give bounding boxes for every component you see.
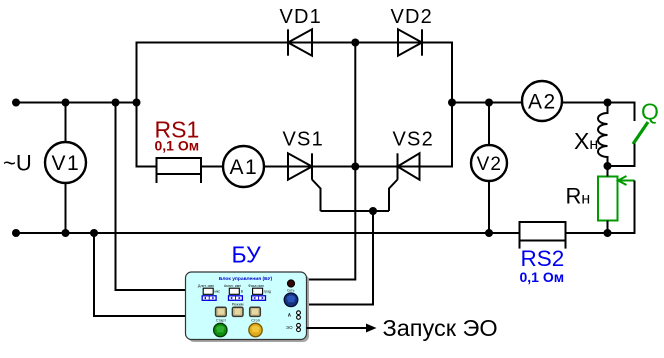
svg-text:V2: V2 (477, 154, 502, 175)
node BU tap bottom (90, 229, 98, 237)
svg-text:VD1: VD1 (280, 6, 323, 28)
BU green button (214, 323, 227, 336)
node V2 top (485, 99, 493, 107)
BU display 1 (203, 288, 220, 294)
node V1 top (62, 99, 70, 107)
wire right riser x=452 with elbow to VS2 (420, 42, 452, 167)
rheostat Rn (598, 166, 618, 233)
BU display 2 (229, 288, 243, 294)
node load top (604, 99, 612, 107)
node source bottom (12, 229, 20, 237)
svg-text:БУ: БУ (232, 242, 262, 268)
svg-text:VS1: VS1 (283, 129, 324, 151)
svg-text:Длит. имп: Длит. имп (198, 284, 214, 288)
svg-text:Запуск ЭО: Запуск ЭО (383, 315, 498, 341)
wire switch branch top (608, 103, 635, 122)
svg-text:VD2: VD2 (391, 6, 434, 28)
node gate junction (369, 207, 377, 215)
svg-text:VS2: VS2 (393, 129, 434, 151)
wire BU input 1 from top bus (116, 103, 186, 291)
node V2 bottom (485, 229, 493, 237)
wire V1 branch (65, 103, 67, 234)
BU terminal group sync (287, 311, 300, 319)
ammeter A2 (522, 81, 562, 121)
wire left riser x=136.5 with elbow to RS1 (137, 42, 158, 167)
svg-text:0,1 Ом: 0,1 Ом (520, 269, 565, 285)
svg-text:Сеть: Сеть (287, 288, 295, 292)
control unit BU shadow (188, 275, 309, 343)
BU square button 3 (250, 307, 261, 316)
wire wiper return (608, 181, 635, 234)
wire zapusk EO (307, 327, 370, 329)
svg-text:Старт: Старт (216, 319, 227, 323)
control unit BU box (186, 272, 307, 340)
BU spinner 2 (229, 296, 243, 301)
wire V2 branch (488, 103, 490, 234)
svg-text:Q: Q (641, 99, 659, 125)
svg-text:Стоп: Стоп (251, 319, 260, 323)
wire gate bus y=211 (321, 210, 390, 212)
rheostat wiper arrow (618, 176, 635, 185)
svg-text:∧: ∧ (287, 312, 291, 318)
svg-text:Ампл. имп: Ампл. имп (224, 284, 241, 288)
svg-text:A2: A2 (528, 91, 557, 114)
resistor RS1 shunt (157, 158, 202, 183)
svg-text:Фаза имп: Фаза имп (248, 284, 264, 288)
voltmeter V2 (471, 145, 507, 181)
BU square button 1 (216, 307, 227, 316)
diode VD1 (288, 29, 312, 55)
BU square button 2 (232, 307, 243, 316)
inductor Xn coil (598, 103, 608, 167)
wire bottom bus y=233 (16, 232, 608, 234)
BU spinner 1 (202, 296, 216, 301)
wire top rail y=42.5 (137, 42, 453, 44)
node load mid (604, 162, 612, 170)
wire mid row RS1 to VS2 y=166.5 (200, 166, 452, 168)
node VD center (351, 39, 359, 47)
node right riser (448, 99, 456, 107)
wire center column VD junction to BU (307, 43, 356, 280)
svg-text:ЭО: ЭО (286, 325, 293, 330)
wire gate net to BU (307, 211, 374, 305)
BU display 3 (253, 288, 271, 294)
thyristor VS2 (398, 153, 420, 179)
svg-text:~U: ~U (3, 151, 32, 176)
wire BU input 2 from bottom bus (94, 233, 186, 316)
svg-text:Блок управления (БУ): Блок управления (БУ) (219, 276, 273, 282)
node corner junction (133, 99, 141, 107)
BU terminal group EO (286, 323, 300, 331)
wire VS2 gate (389, 180, 398, 212)
node load bottom (604, 229, 612, 237)
BU spinner 3 (252, 296, 266, 301)
resistor RS2 shunt (520, 222, 566, 249)
svg-text:RS2: RS2 (521, 246, 565, 271)
svg-text:мкс: мкс (215, 289, 221, 293)
thyristor VS1 (288, 153, 312, 179)
wire VS1 gate (312, 180, 321, 212)
node BU tap top (112, 99, 120, 107)
wire right top row y=102.5 (452, 102, 608, 104)
wire left top bus y=102.5 (16, 102, 137, 104)
arrow zapusk EO (366, 324, 377, 333)
svg-text:0,1 Ом: 0,1 Ом (155, 138, 200, 154)
svg-text:Режим: Режим (232, 302, 244, 306)
BU power indicator (287, 280, 294, 287)
diode VD2 (398, 29, 422, 55)
wire switch branch bottom (608, 144, 635, 167)
svg-text:V1: V1 (51, 152, 80, 175)
ammeter A1 (223, 146, 264, 187)
BU blue button (284, 293, 298, 307)
switch Q blade (633, 122, 648, 144)
node V1 bottom (62, 229, 70, 237)
node VS center (351, 163, 359, 171)
BU yellow button (249, 323, 262, 336)
voltmeter V1 (45, 142, 86, 183)
svg-text:град: град (264, 289, 271, 293)
svg-text:A1: A1 (229, 156, 258, 179)
node source top (12, 99, 20, 107)
